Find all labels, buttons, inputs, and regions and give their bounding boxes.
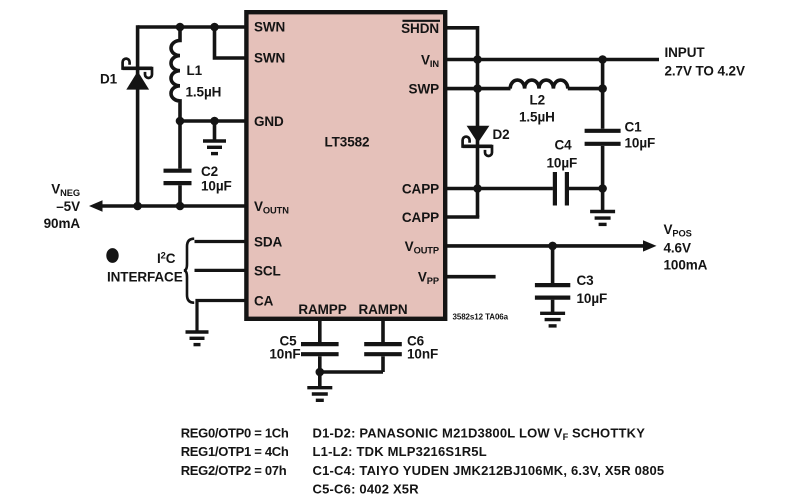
svg-text:INPUT: INPUT <box>665 45 706 60</box>
wire D1 vertical branch <box>136 25 140 206</box>
ground (C3) <box>540 313 565 326</box>
svg-text:REG1/OTP1 = 4Ch: REG1/OTP1 = 4Ch <box>181 444 289 459</box>
inductor L2 <box>510 80 568 89</box>
svg-text:INTERFACE: INTERFACE <box>107 270 183 285</box>
svg-text:SWN: SWN <box>254 20 285 35</box>
svg-text:CA: CA <box>254 293 274 308</box>
capacitor C3 <box>535 246 570 312</box>
svg-text:D2: D2 <box>493 127 510 142</box>
wire C6 to C5 ground node <box>320 370 383 374</box>
svg-text:CAPP: CAPP <box>402 181 439 196</box>
node CAPP1-D2 <box>473 184 482 193</box>
svg-text:–5V: –5V <box>56 199 80 214</box>
IC U1 LT3582 body <box>246 12 445 319</box>
node VOUTN-C2 <box>176 202 185 211</box>
svg-text:10nF: 10nF <box>407 347 438 362</box>
svg-text:C1-C4: TAIYO YUDEN JMK212BJ106: C1-C4: TAIYO YUDEN JMK212BJ106MK, 6.3V, … <box>313 463 665 478</box>
ground (C5/C6) <box>307 388 332 401</box>
ground (C1/C4 node) <box>601 189 605 211</box>
arrow VNEG output <box>89 200 103 211</box>
svg-text:10µF: 10µF <box>577 291 608 306</box>
node GND-earth <box>210 117 219 126</box>
svg-text:10µF: 10µF <box>201 179 232 194</box>
svg-text:SWN: SWN <box>254 51 285 66</box>
svg-text:C5-C6: 0402 X5R: C5-C6: 0402 X5R <box>313 481 420 496</box>
inductor L1 <box>171 27 180 121</box>
svg-text:CAPP: CAPP <box>402 210 439 225</box>
svg-text:SHDN: SHDN <box>401 21 439 36</box>
diode D2 (schottky) <box>463 126 492 156</box>
node SWP-D2 <box>473 84 482 93</box>
node GND-L1 <box>176 117 185 126</box>
brace I2C pins <box>184 239 194 303</box>
capacitor C2 <box>164 121 192 206</box>
svg-text:100mA: 100mA <box>664 258 708 273</box>
svg-text:RAMPP: RAMPP <box>298 302 346 317</box>
node VIN-SHDN <box>473 55 482 64</box>
wire GND pin to L1/C2 node <box>180 119 246 123</box>
node CAPP1-ground <box>598 184 607 193</box>
wire VPP stub <box>446 275 496 279</box>
capacitor C6 <box>364 319 402 372</box>
svg-text:L1: L1 <box>187 63 203 78</box>
wire SDA stub <box>195 240 247 243</box>
capacitor C1 <box>585 60 621 189</box>
node SWN1-L1 <box>176 23 185 32</box>
svg-text:10µF: 10µF <box>625 136 656 151</box>
svg-text:3582s12 TA06a: 3582s12 TA06a <box>453 313 509 322</box>
node SWN1-SWN2 <box>210 23 219 32</box>
wire SWN1 horizontal <box>138 25 246 29</box>
svg-text:SCL: SCL <box>254 263 281 278</box>
wire SWP to L2 <box>446 87 511 91</box>
capacitor C4 <box>555 172 603 206</box>
node VOUTP-C3 <box>548 242 557 251</box>
svg-text:2.7V TO 4.2V: 2.7V TO 4.2V <box>665 63 745 78</box>
wire SCL stub <box>195 269 247 272</box>
svg-text:GND: GND <box>254 114 284 129</box>
svg-text:C1: C1 <box>625 119 643 134</box>
wire VOUTP rail <box>446 244 645 248</box>
svg-text:90mA: 90mA <box>44 216 81 231</box>
svg-text:REG0/OTP0 = 1Ch: REG0/OTP0 = 1Ch <box>181 426 289 441</box>
svg-text:LT3582: LT3582 <box>325 135 370 150</box>
capacitor C5 <box>301 319 339 387</box>
node VOUTN-D1 <box>133 202 142 211</box>
node C5-C6 ground <box>316 368 325 377</box>
svg-text:RAMPN: RAMPN <box>359 302 408 317</box>
ground (CA) <box>186 332 209 345</box>
svg-text:REG2/OTP2 = 07h: REG2/OTP2 = 07h <box>181 463 287 478</box>
svg-text:SDA: SDA <box>254 234 283 249</box>
wire L2 to C1 node <box>568 87 603 91</box>
wire CA to ground <box>197 301 246 332</box>
node VIN-C1 <box>598 55 607 64</box>
arrow VPOS output <box>643 240 657 251</box>
svg-text:L1-L2: TDK MLP3216S1R5L: L1-L2: TDK MLP3216S1R5L <box>313 444 487 459</box>
ground (GND pin) <box>213 121 217 140</box>
svg-text:C4: C4 <box>555 137 573 152</box>
svg-text:C3: C3 <box>577 273 595 288</box>
wire VIN rail <box>446 58 659 62</box>
wire SHDN to VIN rail <box>446 28 478 60</box>
svg-text:10nF: 10nF <box>269 347 300 362</box>
wire VOUTN rail <box>99 204 246 208</box>
svg-text:I2C: I2C <box>157 251 176 267</box>
svg-text:D1: D1 <box>100 72 118 87</box>
svg-text:C2: C2 <box>201 164 218 179</box>
I2C interface bullet <box>106 248 118 263</box>
svg-text:D1-D2: PANASONIC M21D3800L LOW: D1-D2: PANASONIC M21D3800L LOW VF SCHOTT… <box>313 426 646 443</box>
svg-text:1.5µH: 1.5µH <box>519 110 555 125</box>
diode D1 (schottky) <box>123 59 152 90</box>
node SWP-C1 <box>598 84 607 93</box>
svg-text:10µF: 10µF <box>547 155 578 170</box>
svg-text:4.6V: 4.6V <box>664 240 691 255</box>
svg-text:1.5µH: 1.5µH <box>186 85 222 100</box>
svg-text:SWP: SWP <box>409 82 440 97</box>
wire CAPP1 rail <box>446 187 553 191</box>
wire SWN2 to SWN1 <box>215 27 247 58</box>
svg-text:L2: L2 <box>530 93 546 108</box>
wire D2 vertical rail <box>476 60 480 218</box>
wire CAPP2 to D2 rail <box>446 215 479 219</box>
